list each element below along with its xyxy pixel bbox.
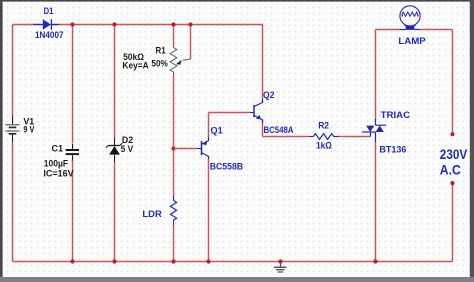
value 9 V bbox=[23, 125, 35, 136]
window frame: right border bbox=[470, 0, 474, 282]
svg-text:BT136: BT136 bbox=[379, 144, 406, 155]
label Q2 bbox=[263, 90, 275, 101]
window frame: top border bbox=[0, 0, 474, 2]
value BT136 bbox=[379, 144, 406, 155]
svg-text:TRIAC: TRIAC bbox=[381, 110, 411, 121]
node: bottom junction at D2 branch bbox=[112, 259, 116, 263]
svg-text:1kΩ: 1kΩ bbox=[316, 140, 332, 151]
wire: lamp loop top y=30 bbox=[376, 29, 453, 31]
wire: Q2 emitter to R2 to triac gate bbox=[263, 120, 371, 137]
transistor Q1 BC558B (PNP) bbox=[197, 137, 209, 159]
value 100uF bbox=[44, 158, 68, 169]
svg-text:C1: C1 bbox=[52, 144, 64, 155]
svg-text:9 V: 9 V bbox=[23, 125, 35, 136]
wire: C1 branch x=72 bbox=[72, 25, 74, 262]
label Q1 bbox=[211, 125, 224, 136]
node: AC source lower terminal bbox=[450, 181, 454, 185]
value 50kOhm bbox=[123, 52, 144, 63]
window frame: left border bbox=[0, 0, 3, 282]
svg-text:R2: R2 bbox=[318, 121, 329, 132]
node: bottom junction at Q1 collector bbox=[206, 259, 210, 263]
wire: Q2 collector riser x=262 bbox=[262, 25, 264, 104]
transistor Q2 BC548A (NPN) bbox=[250, 99, 263, 123]
resistor R2 1k bbox=[310, 134, 339, 140]
node: junction R1/LDR/Q1-base bbox=[171, 146, 175, 150]
label 230V A.C (AC mains source) bbox=[440, 147, 467, 177]
svg-text:230V: 230V bbox=[440, 147, 467, 162]
svg-text:50%: 50% bbox=[151, 58, 168, 69]
wire: Q1 emitter riser and pair link to Q2 base bbox=[209, 113, 251, 142]
svg-text:IC=16V: IC=16V bbox=[43, 169, 74, 180]
svg-text:1N4007: 1N4007 bbox=[35, 30, 64, 41]
potentiometer R1 wiper arrow bbox=[176, 59, 191, 65]
value 5 V bbox=[121, 144, 134, 155]
node: bottom junction at LDR branch bbox=[171, 259, 175, 263]
svg-text:D1: D1 bbox=[44, 6, 54, 17]
potentiometer R1 50k bbox=[170, 46, 177, 77]
label C1 bbox=[52, 144, 64, 155]
value 1kOhm bbox=[316, 140, 332, 151]
svg-text:BC558B: BC558B bbox=[210, 162, 244, 173]
value 50% bbox=[151, 58, 168, 69]
node: bottom junction at triac branch bbox=[373, 259, 377, 263]
svg-text:Q1: Q1 bbox=[211, 125, 224, 136]
node: ground junction on bottom rail bbox=[278, 259, 282, 263]
wire: triac cathode drop x=375.5 bbox=[375, 141, 377, 262]
svg-text:Q2: Q2 bbox=[263, 90, 275, 101]
ground symbol bbox=[274, 262, 287, 273]
value 1N4007 bbox=[35, 30, 64, 41]
value IC=16V bbox=[43, 169, 74, 180]
svg-text:R1: R1 bbox=[155, 46, 166, 57]
battery V1 9V bbox=[5, 116, 19, 142]
svg-text:LAMP: LAMP bbox=[398, 36, 426, 47]
lamp LAMP (bulb) bbox=[400, 6, 420, 30]
wire: AC source upper segment x=452 bbox=[452, 30, 454, 135]
window frame: bottom scrollbar strip bbox=[0, 277, 474, 282]
svg-text:LDR: LDR bbox=[142, 209, 162, 220]
wire: triac anode riser x=375.5 (to lamp loop) bbox=[375, 30, 377, 121]
label TRIAC bbox=[381, 110, 411, 121]
value Key=A bbox=[122, 60, 148, 71]
svg-text:5 V: 5 V bbox=[121, 144, 134, 155]
value BC558B bbox=[210, 162, 244, 173]
wire: Q1 collector drop x=209 bbox=[208, 156, 210, 262]
node: top junction at D2 branch bbox=[112, 22, 116, 26]
wire: D2 branch x=114 bbox=[114, 25, 116, 262]
zener diode D2 5V bbox=[106, 138, 122, 162]
node: top junction at wiper riser bbox=[188, 22, 192, 26]
label LDR bbox=[142, 209, 162, 220]
value BC548A bbox=[264, 125, 294, 136]
label D2 bbox=[122, 135, 133, 146]
svg-text:Key=A: Key=A bbox=[122, 60, 148, 71]
wire: AC source lower segment x=452 bbox=[452, 183, 454, 261]
node: bottom junction at C1 branch bbox=[70, 259, 74, 263]
node: AC source upper terminal bbox=[450, 132, 454, 136]
triac TRIAC BT136 bbox=[362, 119, 386, 142]
svg-text:A.C: A.C bbox=[440, 162, 461, 177]
wire: bottom rail y=261.5 bbox=[13, 261, 453, 263]
label LAMP bbox=[398, 36, 426, 47]
wire: top rail from V1 corner through D1 to Q2 collector riser bbox=[13, 24, 264, 26]
label D1 bbox=[44, 6, 54, 17]
wire: Q1 base wire y=148.5 bbox=[174, 148, 198, 150]
node: top junction at R1 branch bbox=[171, 22, 175, 26]
capacitor C1 bbox=[66, 144, 79, 161]
wire: R1/LDR branch x=173 bbox=[173, 25, 175, 262]
label R2 bbox=[318, 121, 329, 132]
label R1 bbox=[155, 46, 166, 57]
wire: left rail (V1 branch) x=12.5 bbox=[12, 25, 14, 262]
svg-text:BC548A: BC548A bbox=[264, 125, 294, 136]
node: top junction at C1 branch bbox=[70, 22, 74, 26]
wire: R1 wiper riser x=191 bbox=[190, 25, 192, 60]
photoresistor LDR bbox=[170, 196, 176, 226]
label V1 bbox=[23, 117, 34, 128]
diode D1 1N4007 bbox=[33, 19, 59, 30]
